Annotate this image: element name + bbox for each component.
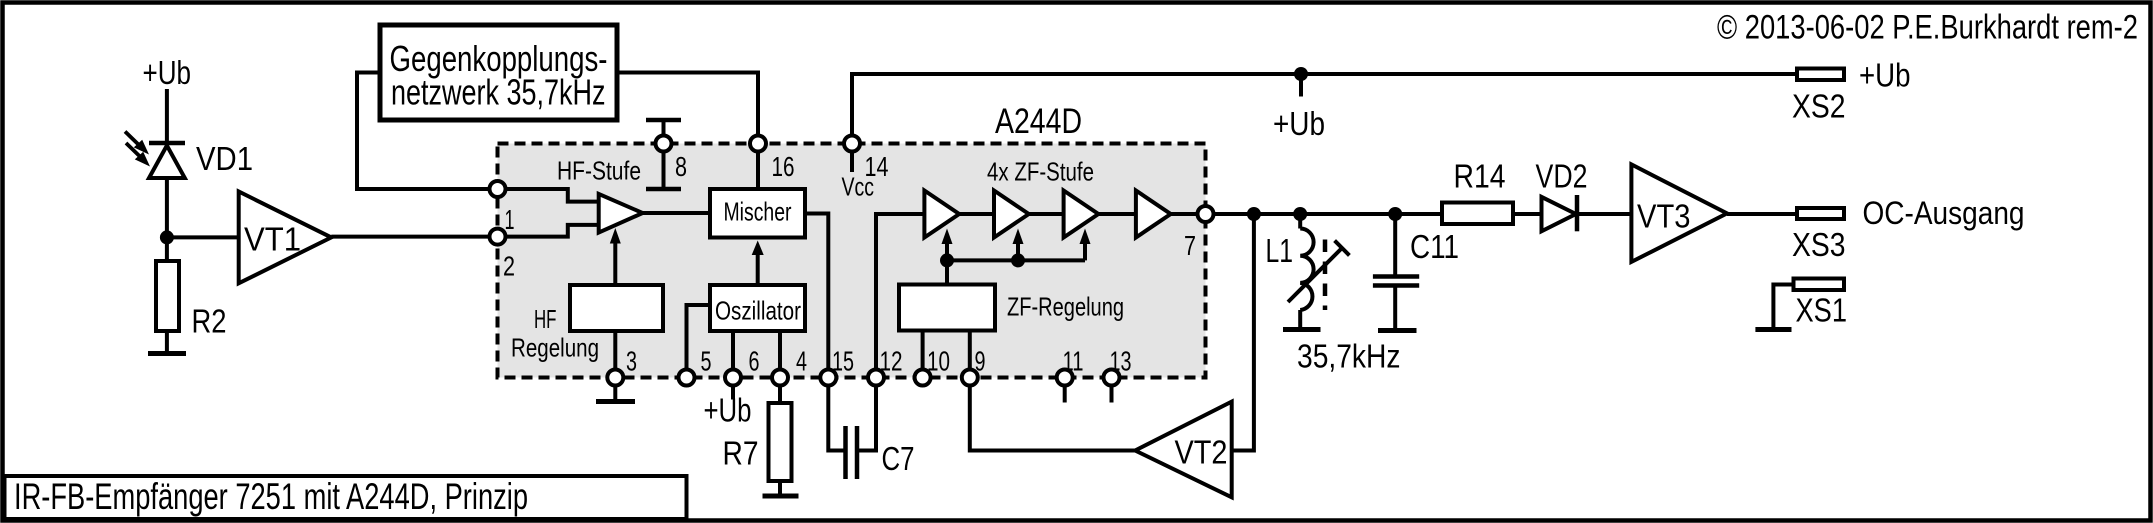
connector XS1 [1794, 279, 1845, 291]
svg-text:R14: R14 [1454, 158, 1506, 195]
box ZF-Regelung [899, 285, 995, 331]
inductor L1 [1300, 214, 1313, 329]
svg-text:12: 12 [880, 346, 903, 377]
svg-text:+Ub: +Ub [1859, 57, 1911, 94]
wire node to VT1 [167, 235, 239, 239]
transistor VT2 [1135, 402, 1232, 498]
wire VD1 to node [165, 178, 169, 261]
svg-text:R7: R7 [723, 435, 759, 472]
svg-text:VD2: VD2 [1536, 158, 1588, 195]
pin 14 [844, 136, 860, 152]
wire +Ub to VD1 [165, 89, 169, 143]
arrow to ZF1 [942, 229, 953, 261]
ground under R2 [148, 351, 186, 356]
wire feedback box to pin 1 [357, 73, 498, 190]
wire pin12 up to ZF amps [876, 214, 924, 378]
pin 8 bottom bar [646, 144, 681, 190]
resistor R2 [156, 261, 179, 331]
svg-text:Regelung: Regelung [511, 333, 599, 363]
ground under XS1 [1755, 327, 1791, 332]
svg-text:+Ub: +Ub [1273, 105, 1325, 142]
wire Mischer to pin 15 [805, 214, 828, 378]
wire [1029, 212, 1064, 216]
pin 4 [772, 370, 788, 386]
wire feedback box to pin 16 [617, 73, 758, 144]
pin 3 ground [596, 378, 635, 402]
connector XS2 [1797, 69, 1844, 81]
svg-text:HF-Stufe: HF-Stufe [557, 156, 641, 186]
L1 adjust arrow [1288, 241, 1349, 302]
pin 6 [725, 370, 741, 386]
transistor VT1 [239, 192, 332, 284]
wire XS1 to ground [1773, 285, 1793, 328]
pin 11 stub [1063, 378, 1067, 403]
wire R14 to VD2 [1513, 212, 1542, 216]
pin 15 [820, 370, 836, 386]
wire HF amp to Mischer [643, 211, 710, 215]
svg-text:L1: L1 [1266, 232, 1294, 269]
pin 5 [679, 370, 695, 386]
capacitor C7 [846, 426, 858, 479]
wire R7 to ground [778, 481, 782, 495]
svg-text:16: 16 [772, 151, 795, 182]
svg-text:R2: R2 [192, 303, 227, 340]
pin 13 [1104, 370, 1120, 386]
amplifier ZF 2 [994, 191, 1029, 238]
svg-text:8: 8 [675, 151, 687, 182]
wire ZF-Regelung to pin 10 [921, 331, 925, 378]
Gegenkopplungsnetzwerk box [380, 25, 617, 120]
junction node [160, 230, 174, 244]
wire pin6 to Oszillator [731, 331, 735, 378]
pin 8 [656, 136, 672, 152]
svg-text:OC-Ausgang: OC-Ausgang [1863, 195, 2025, 231]
wire [1098, 212, 1136, 216]
svg-text:+Ub: +Ub [143, 54, 192, 91]
transistor VT3 [1631, 164, 1727, 262]
pin 10 [915, 370, 931, 386]
amplifier ZF 3 [1064, 191, 1099, 238]
svg-text:15: 15 [832, 346, 854, 377]
svg-text:9: 9 [975, 346, 986, 377]
wire pin5 to Oszillator [687, 305, 711, 378]
photodiode VD1 [125, 132, 185, 179]
wire ZF-Regelung to pin 9 [968, 331, 972, 378]
wire pin14 to top rail [850, 74, 854, 144]
wire feedback to ZF-Regelung box [945, 260, 949, 284]
svg-text:C7: C7 [882, 440, 915, 477]
stub below rail junction [1299, 74, 1303, 97]
ZF regulation feedback line [947, 258, 1085, 262]
box HF Regelung [570, 285, 663, 331]
svg-text:© 2013-06-02 P.E.Burkhardt rem: © 2013-06-02 P.E.Burkhardt rem-2 [1717, 9, 2138, 47]
svg-text:1: 1 [505, 204, 515, 235]
svg-text:3: 3 [626, 346, 637, 377]
svg-text:10: 10 [927, 346, 950, 377]
svg-text:A244D: A244D [995, 102, 1082, 141]
arrow HF Regelung to HF amp [610, 228, 621, 285]
top rail +Ub to XS2 [850, 72, 1797, 76]
pin 6 stub +Ub [731, 378, 735, 400]
svg-text:VT1: VT1 [244, 221, 301, 258]
svg-text:14: 14 [865, 151, 889, 182]
wire R2 to ground [165, 331, 169, 352]
pin 9 [962, 370, 978, 386]
wire pin15 to C7 [828, 378, 845, 451]
amplifier HF-Stufe [599, 194, 643, 233]
svg-text:netzwerk 35,7kHz: netzwerk 35,7kHz [391, 72, 606, 113]
ground under R7 [763, 494, 799, 499]
pin 11 [1057, 370, 1073, 386]
svg-text:11: 11 [1063, 346, 1084, 377]
svg-text:C11: C11 [1410, 228, 1459, 265]
svg-text:IR-FB-Empfänger 7251 mit A244D: IR-FB-Empfänger 7251 mit A244D, Prinzip [14, 476, 528, 517]
ground under C11 [1378, 328, 1417, 333]
svg-text:VD1: VD1 [196, 140, 253, 177]
wire VT2 to output line [1232, 214, 1254, 451]
pin 16 [750, 136, 766, 152]
wire VT3 to XS3 [1727, 212, 1797, 216]
junction dots on feedback line [940, 253, 954, 267]
capacitor C11 [1373, 214, 1419, 329]
wire VT1 to pin 2 [331, 235, 497, 239]
wire pin 9 to VT2 [970, 378, 1135, 451]
wire HF Regelung to pin 3 [613, 331, 617, 378]
svg-text:2: 2 [503, 251, 515, 282]
svg-text:7: 7 [1184, 230, 1196, 261]
svg-text:+Ub: +Ub [704, 392, 752, 429]
connector XS3 [1797, 208, 1844, 219]
pin 7 [1198, 206, 1214, 222]
resistor R7 [769, 403, 792, 481]
arrow to ZF2 [1013, 229, 1024, 261]
wire ZF4 to pin 7 [1171, 212, 1206, 216]
svg-text:5: 5 [701, 346, 712, 377]
arrow to ZF3 [1080, 229, 1091, 261]
svg-text:4x ZF-Stufe: 4x ZF-Stufe [987, 157, 1094, 187]
wire C7 to pin12 [857, 378, 876, 451]
arrow Oszillator to Mischer [752, 241, 764, 286]
wire VD2 to VT3 [1577, 212, 1631, 216]
box Mischer [710, 189, 805, 238]
svg-text:13: 13 [1110, 346, 1132, 377]
pin 8 top bar [646, 120, 681, 144]
svg-text:4: 4 [796, 346, 807, 377]
output line pin7 to R14 [1206, 212, 1443, 216]
wire pin2 to HF amp [498, 225, 599, 237]
svg-text:XS3: XS3 [1792, 226, 1846, 263]
pin 2 [490, 229, 506, 245]
svg-text:XS2: XS2 [1792, 88, 1846, 125]
box Oszillator [710, 285, 805, 331]
svg-text:Mischer: Mischer [724, 197, 792, 227]
svg-text:6: 6 [749, 346, 760, 377]
wire pin16 to Mischer [756, 144, 760, 190]
amplifier ZF 1 [924, 191, 959, 238]
svg-text:VT3: VT3 [1637, 198, 1691, 235]
wire pin4 to Oszillator [778, 331, 782, 378]
junction on rail [1294, 67, 1308, 81]
pin 13 stub [1110, 378, 1114, 403]
L1 core dashed [1323, 240, 1328, 311]
diode VD2 [1542, 195, 1578, 231]
wire [959, 212, 994, 216]
svg-text:ZF-Regelung: ZF-Regelung [1007, 292, 1124, 322]
pin 12 [868, 370, 884, 386]
svg-text:XS1: XS1 [1796, 292, 1848, 329]
IC block A244D (dashed gray) [498, 144, 1206, 378]
junction dots on output line [1247, 207, 1261, 221]
amplifier ZF 4 [1136, 191, 1171, 238]
resistor R14 [1442, 203, 1513, 225]
wire pin4 to R7 [778, 378, 782, 404]
pin 14 inner stub [850, 144, 854, 173]
svg-text:HF: HF [534, 304, 557, 334]
svg-text:Oszillator: Oszillator [715, 296, 801, 326]
svg-text:35,7kHz: 35,7kHz [1297, 338, 1401, 375]
wire pin1 to HF amp [498, 189, 599, 202]
pin 1 [490, 181, 506, 197]
svg-text:VT2: VT2 [1175, 434, 1228, 471]
ground under L1 [1283, 327, 1321, 332]
pin 3 [607, 370, 623, 386]
title box [5, 476, 687, 519]
